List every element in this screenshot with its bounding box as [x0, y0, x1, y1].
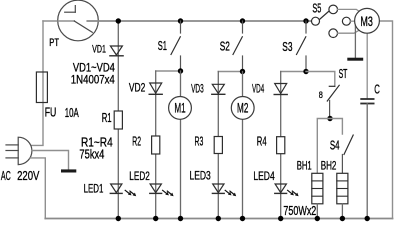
ground (mains side)	[61, 169, 76, 172]
timer PT	[58, 0, 99, 41]
svg-text:R3: R3	[195, 134, 204, 148]
LED1	[111, 184, 122, 193]
switch S5 blade	[319, 11, 329, 20]
LED2	[150, 184, 161, 193]
svg-text:C: C	[374, 83, 380, 97]
motor M2	[231, 97, 254, 120]
svg-text:BH1: BH1	[297, 159, 312, 173]
fuse FU	[36, 72, 47, 103]
wire right rail	[379, 21, 392, 219]
resistor R2	[152, 136, 160, 154]
ground (M3)	[347, 58, 363, 61]
LED4	[275, 184, 286, 193]
node S1 bottom junction	[178, 68, 183, 73]
heater BH1	[312, 173, 323, 204]
branch VD4/R4/LED4	[281, 71, 306, 73]
node bottom junction 2	[153, 216, 158, 221]
branch VD2/R2/LED2	[156, 70, 181, 72]
svg-text:PT: PT	[49, 37, 59, 49]
S5 contact top	[329, 5, 338, 14]
svg-text:220V: 220V	[17, 168, 40, 183]
diode VD2	[150, 83, 162, 93]
plug AC 220V	[18, 137, 32, 164]
LED3	[213, 184, 224, 193]
node ST bottom junction	[327, 116, 332, 121]
svg-text:VD2: VD2	[129, 81, 146, 95]
node bottom junction 7	[315, 216, 320, 221]
node bottom junction 8	[340, 216, 345, 221]
branch VD1/R1/LED1 vertical wire	[117, 21, 119, 219]
S5 contact bottom	[329, 29, 338, 38]
node top rail junction 1	[116, 18, 121, 23]
wire top rail main	[87, 20, 311, 22]
wire left rail	[31, 21, 44, 145]
wire plug bottom to bottom rail	[30, 158, 45, 219]
svg-text:75kx4: 75kx4	[79, 148, 104, 162]
svg-text:AC: AC	[1, 168, 11, 183]
resistor R3	[214, 137, 222, 154]
node bottom junction 4	[216, 216, 221, 221]
wire capacitor to bottom rail	[366, 104, 368, 219]
resistor R1	[114, 111, 122, 129]
diode VD1	[110, 46, 122, 55]
wire S5 contact A to M3	[338, 9, 361, 12]
svg-text:S5: S5	[312, 1, 321, 15]
svg-text:M2: M2	[237, 101, 248, 116]
svg-text:FU: FU	[45, 106, 57, 120]
wire top rail left segment	[43, 20, 58, 22]
svg-text:LED3: LED3	[190, 169, 212, 183]
wire S5 contact D to M3	[338, 30, 359, 33]
svg-text:1N4007x4: 1N4007x4	[71, 72, 115, 86]
node bottom junction 5	[240, 216, 245, 221]
svg-text:R1: R1	[102, 111, 112, 125]
svg-text:S2: S2	[220, 40, 230, 54]
node bottom junction 6	[278, 216, 283, 221]
svg-text:LED1: LED1	[84, 181, 104, 195]
svg-text:M3: M3	[360, 14, 373, 29]
svg-text:R2: R2	[132, 134, 141, 148]
svg-text:VD4: VD4	[252, 81, 264, 95]
node S3 bottom junction	[303, 69, 308, 74]
switch S4	[344, 135, 353, 155]
svg-text:M1: M1	[174, 101, 185, 116]
node S2 bottom junction	[240, 69, 245, 74]
branch VD3/R3/LED3	[218, 71, 242, 73]
svg-text:S4: S4	[330, 139, 340, 153]
S5 contact middle	[342, 17, 350, 25]
switch S2	[242, 21, 244, 33]
branch S2/M2	[240, 18, 245, 23]
motor M1	[169, 97, 192, 120]
heater BH2	[337, 173, 348, 204]
svg-text:8: 8	[319, 90, 323, 101]
svg-text:LED2: LED2	[129, 169, 150, 183]
svg-text:BH2: BH2	[321, 159, 337, 173]
resistor R4	[277, 137, 285, 154]
node bottom junction 3	[178, 216, 183, 221]
wire S3 junction to ST	[306, 72, 335, 87]
wire M3 to ground	[354, 26, 356, 58]
svg-text:LED4: LED4	[253, 169, 275, 183]
diode VD3	[212, 84, 224, 93]
diode VD4	[275, 84, 287, 94]
branch S1/M1	[178, 18, 183, 23]
S5 contact pole	[312, 17, 320, 25]
svg-text:VD3: VD3	[191, 82, 204, 96]
switch S3	[305, 21, 307, 33]
switch S1	[180, 21, 182, 33]
thermal switch ST	[329, 85, 335, 87]
wire plug to ground	[32, 151, 69, 170]
wire S5 contact C to M3	[350, 20, 355, 22]
svg-text:VD1: VD1	[92, 44, 106, 56]
wire bottom rail	[45, 218, 392, 220]
svg-text:10A: 10A	[65, 106, 79, 120]
capacitor C	[361, 98, 373, 100]
svg-text:S1: S1	[158, 39, 167, 53]
wire heater split	[317, 119, 342, 174]
motor M3	[355, 8, 380, 33]
wire M3 to capacitor	[366, 33, 368, 98]
node bottom junction 1	[116, 216, 121, 221]
svg-text:750Wx2: 750Wx2	[283, 204, 316, 218]
branch S3	[303, 18, 308, 23]
svg-text:ST: ST	[339, 67, 348, 81]
node bottom junction 9	[365, 216, 370, 221]
svg-text:S3: S3	[282, 40, 292, 54]
svg-text:R4: R4	[257, 135, 267, 149]
